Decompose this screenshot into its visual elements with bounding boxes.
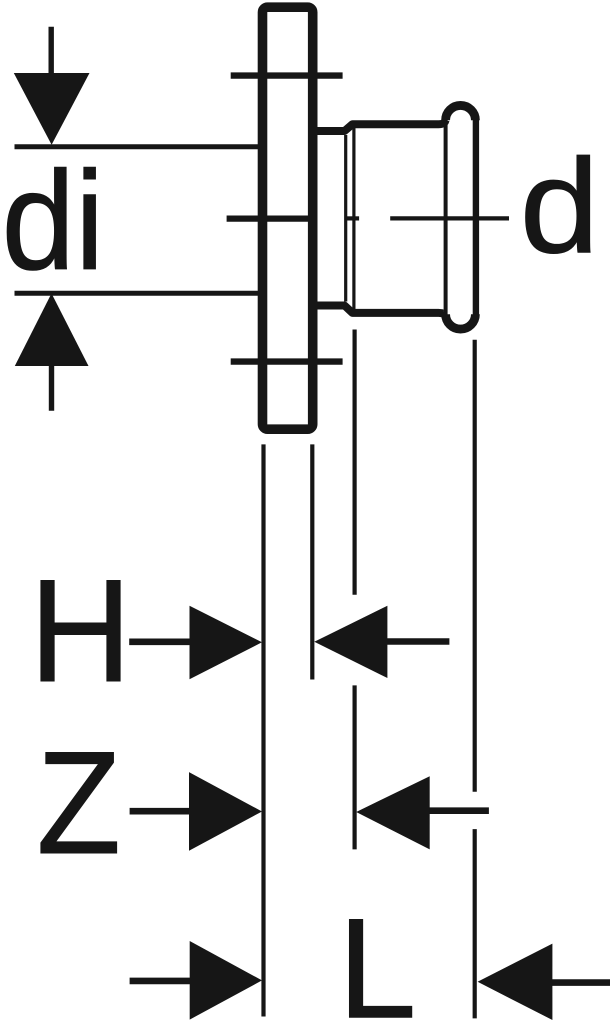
socket outline top: [313, 120, 446, 131]
centerline dash long: [390, 216, 509, 220]
flange tick top: [231, 72, 343, 78]
di down arrow head: [14, 73, 90, 145]
Z dimension left tail: [130, 808, 195, 815]
flange body: [263, 7, 313, 429]
di up arrow tail: [49, 364, 54, 411]
svg-text:di: di: [2, 142, 105, 299]
L dimension right tail: [550, 979, 610, 986]
press bead capsule: [446, 105, 476, 120]
H dimension left tail: [129, 638, 195, 645]
H dimension left arrowhead: [190, 606, 263, 680]
Z dimension right tail: [427, 807, 489, 814]
centerline dash short: [346, 216, 359, 220]
Z dimension right arrowhead: [356, 776, 430, 849]
press bead inner edge: [444, 118, 448, 316]
socket mouth inner line B: [352, 128, 355, 309]
Z dimension left arrowhead: [189, 772, 262, 851]
flange tick middle: [227, 216, 316, 222]
flange tick bottom: [231, 358, 343, 364]
extension line 2 below flange right: [310, 444, 314, 679]
di down arrow tail: [49, 27, 54, 75]
svg-text:H: H: [29, 550, 131, 712]
socket mouth inner line A: [344, 135, 347, 302]
svg-text:d: d: [520, 132, 600, 281]
H dimension right tail: [385, 638, 449, 645]
di bottom line: [15, 291, 259, 296]
L dimension right arrowhead: [478, 944, 553, 1020]
H dimension right arrowhead: [314, 606, 387, 678]
L dimension left tail: [130, 978, 195, 985]
extension line 3 below socket lower: [353, 685, 357, 849]
svg-text:Z: Z: [37, 722, 121, 885]
svg-text:L: L: [338, 890, 416, 1024]
extension line 4 below bead lower: [473, 829, 477, 1018]
L dimension left arrowhead: [190, 941, 262, 1020]
extension line 1 below flange left: [261, 444, 265, 1016]
socket outline bottom: [313, 306, 446, 315]
extension line 3 below socket upper: [353, 330, 357, 595]
extension line 4 below bead upper: [473, 340, 477, 792]
di top line: [15, 144, 259, 149]
di up arrow head: [15, 293, 89, 366]
